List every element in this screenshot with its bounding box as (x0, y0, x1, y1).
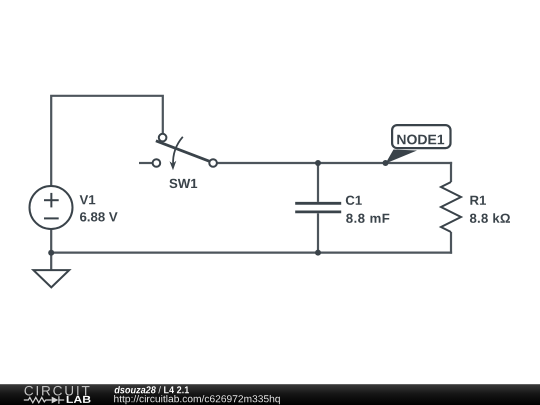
logo CIRCUIT text (25, 386, 90, 396)
ground (33, 270, 69, 287)
footer credit line (115, 386, 189, 393)
switch SW1 (153, 134, 217, 171)
V1 plus sign (44, 199, 59, 201)
junction V1-ground-bottom rail (48, 250, 54, 256)
SW1 contact top throw (159, 134, 167, 142)
wire top rail from V1 to SW1 (51, 96, 163, 186)
wire R1 bottom lead (450, 232, 452, 254)
NODE1 flag box (392, 125, 450, 148)
SW1 blade (156, 141, 209, 161)
V1 body circle (30, 186, 73, 229)
capacitor C1 (295, 203, 341, 212)
wire capacitor bottom lead (317, 213, 319, 252)
label 8.8 kOhm (470, 213, 510, 223)
NODE1 flag pointer (386, 150, 418, 164)
wire capacitor top lead (317, 163, 319, 202)
wire top rail from SW1 to R1 (217, 162, 452, 164)
wire SW1 left stub (139, 162, 153, 164)
SW1 contact common pole (209, 159, 217, 167)
SW1 actuation arrow (173, 137, 183, 165)
footer bar (0, 384, 540, 405)
node NODE1 flag (383, 125, 451, 166)
voltage source V1 (30, 186, 73, 229)
label R1 (470, 196, 486, 205)
wire bottom rail (51, 252, 452, 254)
junction capacitor bottom (315, 250, 321, 256)
label 6.88 V (80, 212, 118, 221)
label SW1 (169, 179, 197, 188)
wire ground stem (50, 253, 52, 271)
logo LAB text (67, 396, 91, 403)
logo resistor-diode glyph (24, 396, 64, 404)
resistor R1 (441, 182, 461, 232)
wire R1 top lead (450, 162, 452, 182)
junction capacitor top (315, 160, 321, 166)
label 8.8 mF (346, 214, 389, 223)
footer url line (114, 395, 280, 404)
SW1 contact left throw (153, 159, 161, 167)
wire V1 bottom stub (50, 230, 52, 253)
V1 minus sign (44, 217, 59, 219)
NODE1 anchor junction (383, 160, 389, 166)
label C1 (346, 196, 362, 205)
label V1 (80, 195, 96, 204)
